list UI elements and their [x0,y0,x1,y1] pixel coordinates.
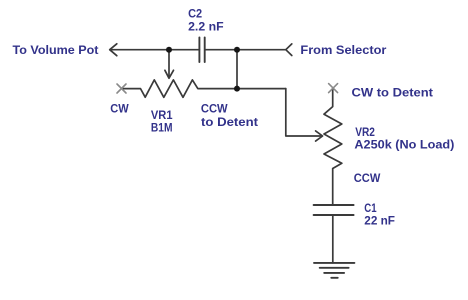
svg-text:2.2 nF: 2.2 nF [188,19,224,33]
svg-text:to Detent: to Detent [201,115,258,129]
svg-text:A250k (No Load): A250k (No Load) [354,138,454,152]
svg-text:22 nF: 22 nF [364,214,395,228]
svg-text:B1M: B1M [151,121,173,135]
svg-text:CW to Detent: CW to Detent [352,86,434,100]
svg-text:CCW: CCW [354,171,381,185]
svg-text:CW: CW [110,101,129,115]
svg-text:C2: C2 [188,6,202,20]
svg-text:CCW: CCW [201,101,228,115]
svg-text:From Selector: From Selector [300,43,386,57]
svg-text:To Volume Pot: To Volume Pot [13,43,99,57]
